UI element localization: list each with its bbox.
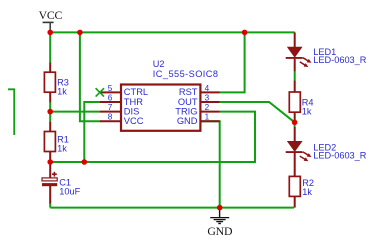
svg-text:TRIG: TRIG [175,106,197,116]
wire: LED1 cathode to R4 [294,71,296,81]
svg-text:VCC: VCC [39,8,63,22]
svg-text:1: 1 [205,113,210,122]
svg-text:10uF: 10uF [59,187,80,197]
svg-text:3: 3 [205,93,210,102]
svg-text:LED-0603_R: LED-0603_R [313,55,366,65]
pin 3 OUT [178,93,220,106]
svg-text:IC_555-SOIC8: IC_555-SOIC8 [153,69,219,79]
junction R3/R1/DIS [47,109,53,115]
svg-text:GND: GND [207,224,233,238]
wire: GND pin 1 drop [200,121,219,207]
LED1 [286,32,367,71]
wire: THR net to pin 6 [84,102,100,162]
LED2 [286,127,367,167]
op-amp U2 IC_555-SOIC8 body [121,59,218,131]
wire: stub bracket at left edge [8,89,14,135]
svg-text:5: 5 [108,84,113,93]
resistor R4 [289,81,313,123]
svg-text:LED-0603_R: LED-0603_R [313,150,366,160]
wire: VCC drop to pin 8 [80,32,100,121]
svg-text:U2: U2 [153,59,165,69]
wire: RST to VCC rail [220,32,245,92]
pin 2 TRIG [175,103,219,116]
pin 6 THR [100,93,143,106]
svg-text:1k: 1k [302,106,312,116]
wire: OUT diagonal to LED2 junction [220,102,295,122]
pin 7 DIS [100,103,139,116]
junction OUT/R4/LED2 [292,120,298,126]
svg-text:THR: THR [124,97,143,107]
ground symbol GND [207,208,233,238]
svg-text:RST: RST [179,87,198,97]
svg-text:1k: 1k [57,86,67,96]
wire: TRIG net long run [84,101,102,103]
svg-text:VCC: VCC [124,116,144,126]
capacitor C1 [42,162,81,204]
wire: GND bottom rail [50,207,294,209]
junction at VCC stem [47,30,53,36]
svg-text:1k: 1k [302,187,312,197]
pin 1 GND [177,113,220,126]
resistor R3 [44,63,68,103]
resistor R1 [44,122,68,162]
svg-text:OUT: OUT [178,97,198,107]
wire: VCC top rail [50,31,295,33]
pin 5 CTRL [100,84,148,97]
svg-text:2: 2 [205,103,210,112]
wire: C1 bottom to rail [49,203,51,208]
svg-text:8: 8 [108,113,113,122]
wire: DIS net to pin 7 [50,111,100,113]
junction THR/TRIG [82,159,88,165]
junction R1/C1/TRIG [47,159,53,165]
node VCC symbol [39,8,63,31]
wire: rail down to R3 [49,32,51,62]
svg-text:DIS: DIS [124,106,140,116]
svg-text:7: 7 [108,103,113,112]
resistor R2 [289,166,314,207]
svg-text:1k: 1k [57,144,67,154]
junction at VCC drop [77,30,83,36]
pin 4 RST [179,84,220,97]
no-connect X on pin 5 [96,88,104,96]
svg-text:CTRL: CTRL [124,87,148,97]
svg-text:6: 6 [108,93,113,102]
pin 8 VCC [100,113,144,126]
junction GND rail [217,205,223,211]
wire: R3 bottom to junction to R1 [49,102,51,122]
junction at RST drop [242,30,248,36]
svg-text:GND: GND [177,116,198,126]
svg-text:4: 4 [205,84,210,93]
wire: junction to LED2 anode [294,122,296,127]
